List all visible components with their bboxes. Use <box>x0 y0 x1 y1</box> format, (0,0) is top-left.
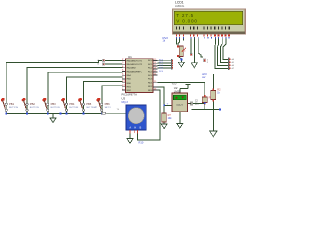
svg-text:PB6: PB6 <box>105 102 111 106</box>
svg-text:RC3: RC3 <box>148 71 153 73</box>
svg-text:U3: U3 <box>122 97 126 101</box>
svg-text:VDD: VDD <box>172 84 177 86</box>
svg-text:RA3/AN3/REF+: RA3/AN3/REF+ <box>127 70 143 73</box>
svg-text:PB5: PB5 <box>86 102 92 106</box>
svg-text:RD1: RD1 <box>148 82 153 84</box>
svg-text:RD3: RD3 <box>148 90 153 92</box>
svg-text:RC4: RC4 <box>148 75 153 77</box>
svg-text:SET TEMP: SET TEMP <box>86 107 97 109</box>
svg-text:PB3: PB3 <box>51 102 57 106</box>
svg-text:R10: R10 <box>139 141 144 145</box>
svg-text:RA2/AN2: RA2/AN2 <box>127 67 137 70</box>
svg-text:BUTTON: BUTTON <box>51 107 60 109</box>
svg-text:RA1/AN1/OUT2: RA1/AN1/OUT2 <box>127 63 143 66</box>
svg-text:out: out <box>202 76 206 79</box>
svg-text:LCD1: LCD1 <box>175 0 184 4</box>
svg-text:RC5: RC5 <box>148 79 153 81</box>
svg-text:PB2: PB2 <box>30 102 36 106</box>
svg-text:VOUT: VOUT <box>176 104 183 107</box>
svg-text:SET V: SET V <box>105 107 112 109</box>
svg-text:MQ-3: MQ-3 <box>122 101 129 104</box>
svg-text:RC1: RC1 <box>148 64 153 66</box>
svg-text:A H B: A H B <box>129 126 142 130</box>
svg-text:LM016L: LM016L <box>175 4 185 8</box>
svg-text:BUTTON: BUTTON <box>30 107 39 109</box>
svg-text:PB4: PB4 <box>69 102 75 106</box>
svg-text:RC2: RC2 <box>148 68 153 70</box>
svg-text:PB1: PB1 <box>9 102 15 106</box>
svg-text:BUTTON: BUTTON <box>9 107 18 109</box>
svg-text:T 27.5: T 27.5 <box>176 13 194 18</box>
svg-text:BUTTON: BUTTON <box>69 107 78 109</box>
svg-text:RA0/AN0/OUT1: RA0/AN0/OUT1 <box>127 59 143 62</box>
svg-text:RC0: RC0 <box>148 60 153 62</box>
svg-text:V 0.000: V 0.000 <box>176 18 197 23</box>
svg-text:RD2: RD2 <box>148 86 153 88</box>
